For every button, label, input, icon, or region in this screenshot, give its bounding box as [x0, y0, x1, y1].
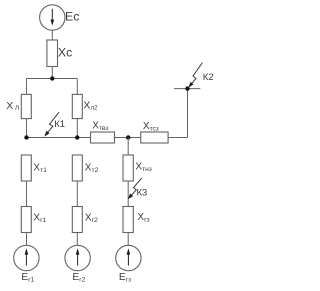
svg-text:Ег2: Ег2 [72, 272, 85, 283]
wire Xtn3 to Xg3 [127, 181, 129, 207]
fault K3 [128, 178, 142, 199]
reactance Xc [47, 40, 58, 67]
svg-text:Хтнз: Хтнз [135, 162, 151, 173]
svg-text:Егз: Егз [119, 272, 131, 283]
node left branch / lower bus [24, 135, 28, 139]
node junction Xc/bus [50, 76, 54, 80]
wire Xt1 to Xg1 [26, 181, 28, 207]
reactance Xg1 [21, 207, 31, 233]
source Eg2 [65, 245, 90, 270]
source Ec [40, 5, 65, 30]
svg-text:Хг1: Хг1 [33, 213, 46, 225]
svg-text:Ег1: Ег1 [21, 272, 34, 283]
wire Xt2 to Xg2 [76, 181, 78, 207]
svg-text:К3: К3 [137, 187, 148, 198]
svg-text:Хг2: Хг2 [85, 213, 98, 225]
reactance Xg2 [72, 207, 82, 233]
lower bus wire [27, 137, 91, 139]
fault K1 [44, 112, 59, 136]
upper bus wire [27, 78, 78, 80]
wire Xtv3 to node [115, 137, 141, 139]
wire upper bus to Xl1 [26, 79, 28, 95]
svg-text:Хгз: Хгз [137, 212, 149, 224]
node K2 [185, 86, 189, 90]
wire Ec to Xc [51, 30, 53, 40]
fault K2 [188, 63, 202, 88]
node mid branch [126, 135, 130, 139]
reactance Xg3 [123, 207, 133, 233]
reactance Xtn3 [123, 155, 133, 181]
wire riser to K2 bar [187, 89, 189, 138]
source Eg1 [14, 245, 39, 270]
svg-text:К1: К1 [54, 119, 65, 130]
svg-text:Xc: Xc [58, 46, 72, 60]
wire Xts3 to K2 riser [168, 137, 187, 139]
reactance Xt2 [72, 155, 82, 181]
wire Xl2 to lower bus [76, 119, 78, 138]
reactance Xts3 [141, 132, 168, 143]
wire node to Xtn3 [127, 138, 129, 156]
svg-text:Ec: Ec [65, 9, 79, 23]
wire Xg2 to Eg2 [76, 233, 78, 246]
svg-text:Хл2: Хл2 [83, 101, 98, 112]
wire Xg3 to Eg3 [127, 233, 129, 246]
source Eg3 [116, 245, 141, 270]
wire Xl1 to lower bus [26, 119, 28, 138]
reactance Xl1 [21, 94, 31, 118]
svg-text:Хл: Хл [6, 100, 19, 112]
svg-text:Хтсз: Хтсз [143, 121, 159, 132]
svg-text:К2: К2 [203, 72, 214, 83]
reactance Xt1 [21, 155, 31, 181]
wire Xg1 to Eg1 [26, 233, 28, 246]
wire Xc to upper bus [51, 67, 53, 79]
svg-text:Хт2: Хт2 [85, 162, 99, 174]
wire upper bus to Xl2 [76, 79, 78, 95]
svg-text:Хт1: Хт1 [33, 162, 47, 174]
reactance Xl2 [72, 94, 82, 118]
node right branch / lower bus [75, 135, 79, 139]
K2 bus bar [174, 88, 200, 90]
reactance Xtv3 [91, 132, 115, 143]
svg-text:Хтвз: Хтвз [92, 121, 108, 132]
